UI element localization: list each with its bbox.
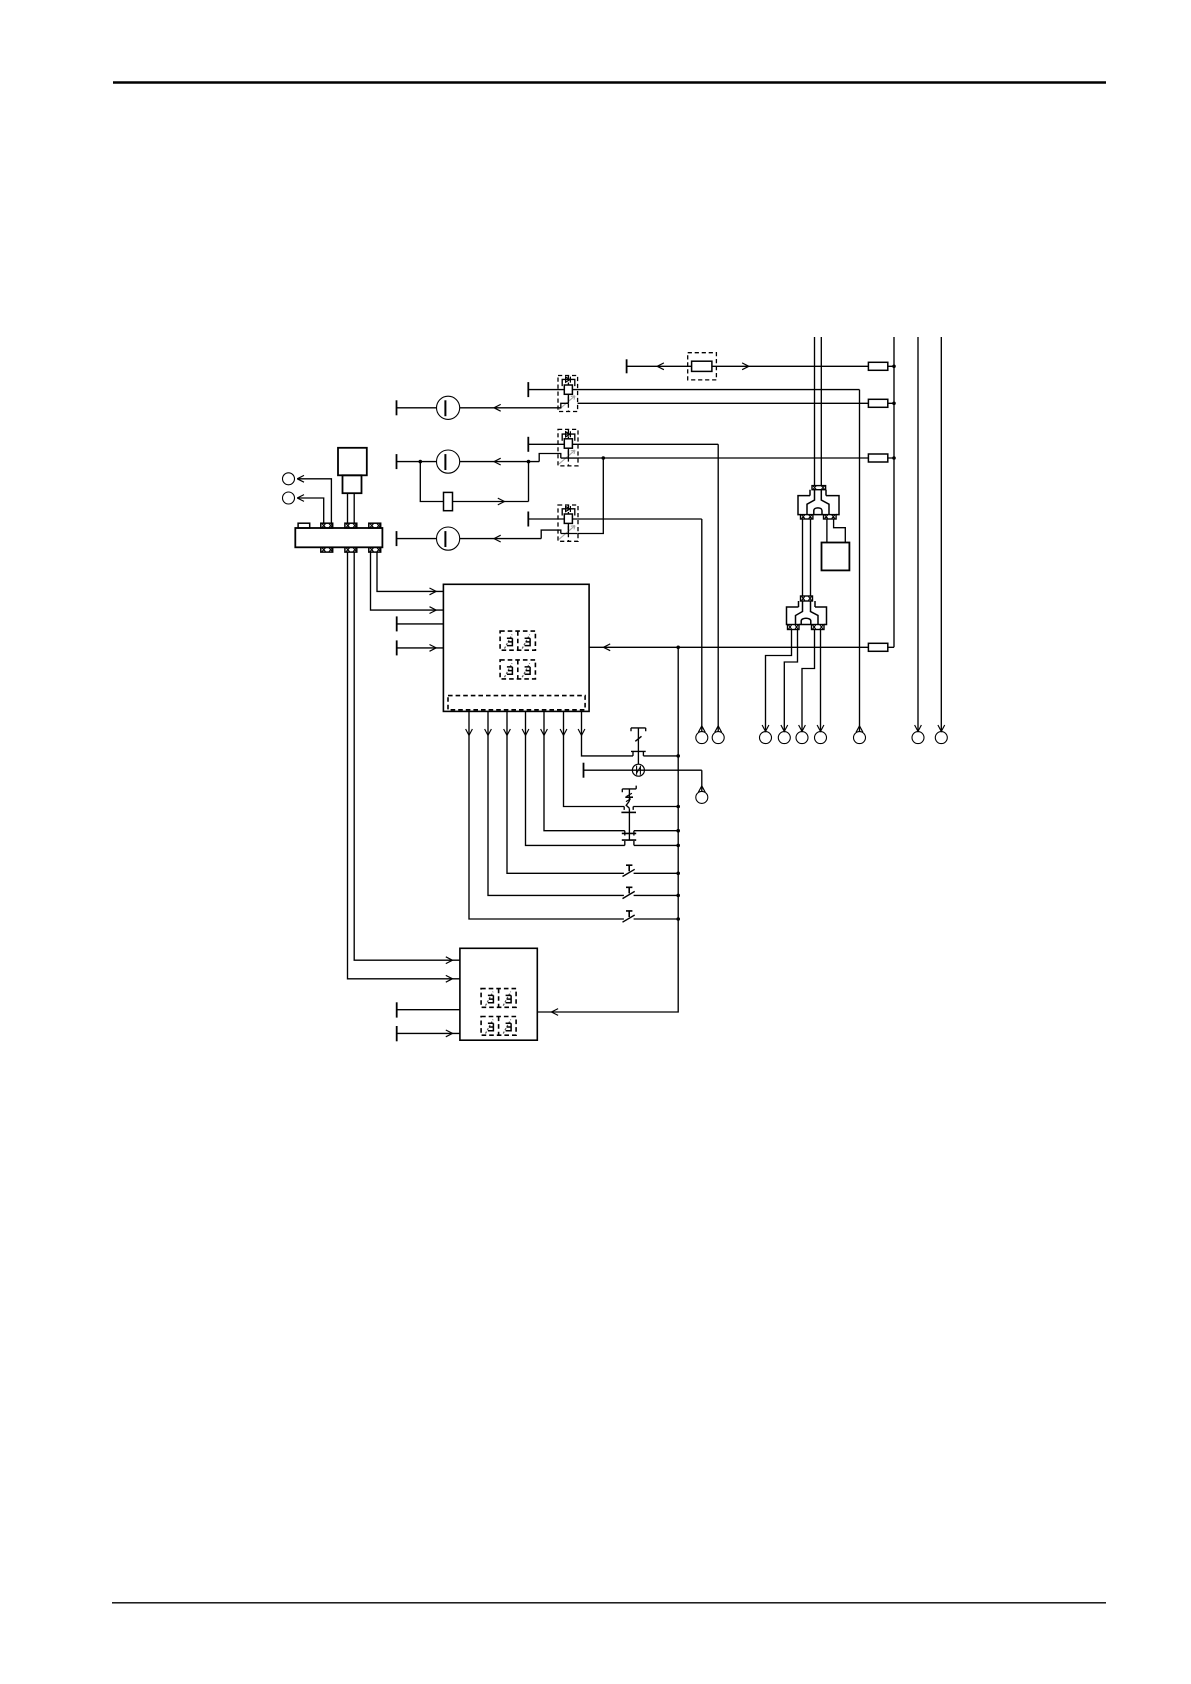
wire lower block input 3	[397, 1002, 460, 1017]
wire block drop 5	[541, 711, 625, 830]
top rule	[113, 81, 1106, 84]
node fuse F3 junction	[892, 456, 896, 460]
strainer circle	[632, 764, 644, 776]
solenoid pair S1 dashed box	[500, 631, 535, 650]
pump P1 body	[338, 448, 367, 493]
arrow into lower block	[551, 1009, 558, 1016]
main block dashed bottom strip	[448, 696, 585, 710]
wire vertical riser D to port 9	[938, 337, 945, 732]
wire pilot top line	[627, 359, 894, 373]
wire manifold to lower valve block input 2	[348, 552, 460, 982]
throttle check valve V2 terminator bar	[527, 437, 529, 452]
node riser tee 873	[676, 872, 680, 876]
wire manifold to main valve block input 2	[371, 552, 444, 613]
manifold top fitting 3	[369, 523, 381, 528]
fuse fitting F1	[868, 362, 887, 370]
port circle 6	[815, 732, 827, 744]
fuse fitting F2	[868, 399, 887, 407]
port circle 3	[760, 732, 772, 744]
pump shaft lines	[348, 493, 355, 523]
manifold cap fitting	[298, 523, 310, 528]
wire valve V3 branch to port 1	[698, 519, 705, 732]
node gauge G2 tee left	[419, 460, 423, 464]
wire W2 out to port 4	[781, 630, 798, 732]
node tank line tee	[676, 646, 680, 650]
hose breaker B2	[623, 887, 635, 898]
node riser tee 830	[676, 829, 680, 833]
quick coupler Q2	[621, 786, 636, 841]
port circle 1	[696, 732, 708, 744]
wire vertical riser B	[820, 337, 822, 486]
solenoid S2 glyphs	[505, 663, 531, 677]
wire W2 out to port 5	[799, 630, 815, 732]
node fuse F1 junction	[892, 365, 896, 369]
bottom rule	[112, 1602, 1106, 1604]
throttle check valve V3	[528, 505, 578, 541]
wire main block tank output	[589, 644, 894, 651]
solenoid pair S4 dashed box	[481, 1017, 516, 1036]
port circle 7	[854, 732, 866, 744]
node riser tee 755	[676, 754, 680, 758]
solenoid S3 glyphs	[486, 992, 512, 1006]
wire valve V2 main output	[578, 443, 719, 445]
wye fitting W2 lower clamp right	[812, 625, 825, 630]
node riser tee 806	[676, 805, 680, 809]
wye fitting W1 upper clamp	[812, 486, 826, 490]
wire W1 right pair to accumulator	[827, 519, 845, 543]
manifold bottom fitting 2	[345, 547, 357, 552]
throttle check valve V1 terminator bar	[527, 382, 529, 397]
fuse fitting F3	[868, 454, 887, 462]
solenoid pair S3 dashed box	[481, 989, 516, 1008]
wire port T1 to manifold	[297, 475, 331, 523]
accumulator box	[822, 543, 850, 571]
main control valve block U1	[443, 584, 589, 711]
wire valve V3 lower link	[578, 458, 604, 534]
wire coupler line 1 right	[643, 755, 678, 757]
node riser tee 895	[676, 894, 680, 898]
wire valve V2 branch to port 2	[715, 444, 722, 732]
wire block drop 4	[522, 711, 625, 845]
pilot valve block U2	[460, 948, 537, 1040]
wire valve V3 main output	[578, 518, 702, 520]
wire vertical riser A	[814, 337, 816, 486]
throttle check valve V3 terminator bar	[527, 512, 529, 527]
wire port T2 to manifold	[297, 495, 324, 524]
wire W2 out to port 3	[762, 630, 791, 732]
wire main valve block input 3	[397, 616, 444, 631]
wire vertical collector	[893, 337, 895, 647]
manifold block	[295, 528, 382, 547]
wire W1 to W2 left pair	[803, 519, 811, 596]
throttle check valve V1	[528, 376, 577, 412]
port circle T2	[283, 492, 295, 504]
wire gauge G1 line	[397, 400, 559, 415]
quick coupler pair Q3	[622, 831, 636, 846]
fuse fitting F4	[868, 643, 887, 651]
port circle 8	[912, 732, 924, 744]
wire breaker line 5 right	[634, 872, 679, 874]
orifice bypass loop	[420, 462, 528, 505]
pressure gauge G1	[437, 396, 460, 419]
wire valve V1 lower output to fuse	[578, 402, 894, 404]
port circle 9	[935, 732, 947, 744]
wire breaker line 6 right	[634, 894, 679, 896]
wye fitting W1 lower clamp left	[801, 515, 813, 519]
hose breaker B3	[623, 911, 635, 922]
wire block drop 2	[485, 711, 624, 895]
hose breaker B1	[623, 865, 635, 876]
wire block drop 1	[466, 711, 624, 919]
wire block drop 3	[504, 711, 624, 873]
wire main return riser	[537, 647, 678, 1012]
wire valve V2 lower output common return	[578, 457, 894, 459]
manifold top fitting 1	[321, 523, 333, 528]
wire block drop 7	[578, 711, 633, 756]
port circle 5	[796, 732, 808, 744]
wire gauge G2 line	[397, 454, 559, 470]
pressure gauge G3	[437, 527, 460, 550]
manifold bottom fitting 1	[321, 547, 333, 552]
throttle check valve V2	[528, 429, 578, 466]
wye fitting W2 body	[787, 601, 827, 625]
wire manifold to main valve block input 1	[377, 552, 443, 595]
wye fitting W1 body	[798, 490, 839, 515]
wire coupler line 2 right	[633, 806, 678, 808]
wire coupler pair line 4 right	[634, 844, 678, 846]
wire manifold to lower valve block input 1	[354, 552, 460, 964]
wire block drop 6	[560, 711, 624, 806]
node fuse F2 junction	[892, 402, 896, 406]
node valve return tee	[602, 456, 606, 460]
port circle 4	[778, 732, 790, 744]
port circle 2	[712, 732, 724, 744]
wye fitting W1 lower clamp right	[824, 515, 837, 519]
orifice O1	[444, 492, 453, 510]
wire breaker line 7 right	[634, 918, 679, 920]
wire valve V1 main output	[578, 389, 860, 391]
wire coupler pair line 3 right	[634, 830, 678, 832]
solenoid pair S2 dashed box	[500, 660, 535, 679]
wire gauge G3 line	[397, 530, 559, 546]
wire vertical riser C to port 8	[915, 337, 922, 732]
inline component K1 dashed box	[688, 353, 717, 380]
manifold bottom fitting 3	[369, 547, 381, 552]
solenoid S1 glyphs	[505, 635, 531, 649]
pressure gauge G2	[437, 450, 460, 473]
solenoid S4 glyphs	[486, 1020, 512, 1034]
node riser tee 845	[676, 844, 680, 848]
wire W2 out to port 6	[817, 630, 824, 732]
wire lower block input 4	[397, 1026, 460, 1041]
wire capped aux line	[584, 763, 706, 793]
manifold top fitting 2	[345, 523, 357, 528]
wire valve V1 branch down	[856, 390, 863, 733]
node riser tee 919	[676, 917, 680, 921]
wye fitting W2 lower clamp left	[788, 625, 800, 630]
wye fitting W2 upper clamp	[801, 596, 813, 601]
quick coupler Q1	[631, 728, 646, 764]
node gauge G2 tee right	[527, 460, 531, 464]
wire main valve block input 4	[397, 640, 444, 655]
port circle T1	[283, 473, 295, 485]
port circle aux	[696, 791, 708, 803]
